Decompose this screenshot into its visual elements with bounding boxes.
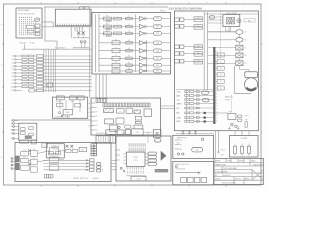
crystal X1 <box>80 7 84 10</box>
gate U2 <box>47 83 52 87</box>
svg-text:C8: C8 <box>245 40 247 42</box>
filter bank <box>148 152 157 165</box>
svg-text:4: 4 <box>133 2 134 4</box>
svg-text:OUT: OUT <box>156 65 159 67</box>
keyboard block KB1 <box>16 8 42 38</box>
input row 3 <box>12 62 92 65</box>
border zone ticks <box>1 2 263 186</box>
main amplifier IC20 <box>213 47 217 124</box>
audio panel <box>15 143 111 182</box>
wire stubs to option box <box>183 133 196 135</box>
driver row 1 <box>99 16 171 22</box>
controller IC901 <box>120 152 148 174</box>
svg-text:P5: P5 <box>95 125 97 127</box>
sheet border frame <box>4 4 262 185</box>
bus line <box>95 14 97 72</box>
svg-text:B1: B1 <box>220 61 222 63</box>
input row 4 <box>12 65 92 68</box>
svg-text:REC: REC <box>177 121 182 123</box>
power cluster <box>228 112 249 130</box>
bus drop <box>96 74 106 98</box>
corridor wires <box>161 106 175 109</box>
svg-text:KEY BOARD: KEY BOARD <box>18 9 30 12</box>
svg-text:L2: L2 <box>245 47 247 49</box>
input row 2 <box>12 58 92 61</box>
svg-text:~: ~ <box>33 153 34 155</box>
svg-text:37: 37 <box>248 155 250 157</box>
control bottom box <box>131 176 146 181</box>
bus line <box>98 14 100 72</box>
wire <box>248 70 250 72</box>
svg-text:R3: R3 <box>128 48 130 50</box>
key legend 2 <box>28 30 34 33</box>
svg-text:OUT: OUT <box>156 58 159 60</box>
input row 6 <box>12 72 92 75</box>
svg-text:OUT: OUT <box>156 42 159 44</box>
input row 1 <box>12 55 92 58</box>
svg-text:Q22: Q22 <box>33 158 36 160</box>
svg-text:KB-201: KB-201 <box>20 43 28 45</box>
audio out rows <box>44 159 95 172</box>
parts cluster <box>116 118 131 129</box>
svg-text:Q5: Q5 <box>115 47 117 49</box>
svg-text:P4: P4 <box>95 121 97 123</box>
svg-text:B3: B3 <box>220 75 222 77</box>
power supply block PS1 <box>53 96 88 119</box>
dashed line <box>230 95 232 112</box>
svg-text:31: 31 <box>234 155 236 157</box>
part column <box>134 116 143 129</box>
input filters <box>194 17 203 64</box>
hatched block F2 <box>134 110 140 114</box>
shield dashed line <box>220 11 222 58</box>
svg-text:B2: B2 <box>220 68 222 70</box>
svg-text:P6: P6 <box>95 130 97 132</box>
wire <box>143 131 153 133</box>
svg-text:CTRL: CTRL <box>134 160 138 162</box>
panel top rail <box>204 13 258 15</box>
svg-text:T1: T1 <box>245 32 247 34</box>
svg-text:TAPE: TAPE <box>177 102 183 105</box>
svg-text:7: 7 <box>244 2 245 4</box>
svg-text:R10: R10 <box>106 16 109 18</box>
svg-text:X2: X2 <box>44 145 46 147</box>
svg-text:IC13: IC13 <box>23 157 26 159</box>
svg-text:2: 2 <box>59 2 60 4</box>
interface panel <box>91 98 161 135</box>
bus line mid2 <box>146 40 148 72</box>
ic IC6 <box>110 125 118 131</box>
svg-text:C2: C2 <box>128 24 130 26</box>
capacitors C2 C3 <box>80 41 86 48</box>
input row 5 <box>12 68 92 71</box>
audio filters <box>96 162 104 172</box>
output filter chain <box>208 26 247 65</box>
svg-text:-B: -B <box>89 103 91 105</box>
wire stub <box>44 7 46 41</box>
svg-text:R3: R3 <box>128 40 130 42</box>
preamp IC25 <box>46 144 64 158</box>
svg-text:D-401: D-401 <box>136 179 140 181</box>
buffer box <box>79 147 86 151</box>
svg-text:D-10: D-10 <box>11 86 14 88</box>
bus verticals <box>44 49 56 92</box>
panel pin stubs <box>91 103 97 132</box>
svg-text:D-6: D-6 <box>12 73 15 75</box>
svg-text:AUDIO SECTION: AUDIO SECTION <box>74 177 89 180</box>
cap C9 <box>126 108 133 113</box>
bus line mid <box>135 15 137 73</box>
wire <box>45 40 57 42</box>
capacitor C1 <box>85 7 89 10</box>
inter-panel wires <box>111 160 116 170</box>
panel top parts <box>19 140 36 144</box>
svg-text:OUT: OUT <box>156 18 159 20</box>
svg-text:B4: B4 <box>220 81 222 83</box>
panel bus <box>204 12 207 90</box>
keyboard ref label <box>20 42 36 44</box>
svg-text:~: ~ <box>53 167 54 169</box>
driver T1 <box>161 151 167 161</box>
dip switch SW9 <box>44 175 53 178</box>
power wires to title area <box>216 131 226 159</box>
svg-text:A-3520: A-3520 <box>93 177 99 180</box>
title block <box>214 159 263 185</box>
svg-text:P2: P2 <box>95 112 97 114</box>
svg-text:TUN: TUN <box>177 91 182 93</box>
svg-text:B0: B0 <box>220 55 222 57</box>
svg-text:R3: R3 <box>128 63 130 65</box>
wire <box>147 132 149 143</box>
sensor box S1 <box>153 130 161 138</box>
key switch matrix <box>19 17 36 35</box>
pill X3 <box>209 16 214 19</box>
svg-text:Q5: Q5 <box>115 39 117 41</box>
svg-text:LINE: LINE <box>177 117 182 119</box>
driver row 5 <box>99 47 171 53</box>
wire stub <box>24 45 26 50</box>
ic IC7 <box>106 130 116 135</box>
svg-text:Q21: Q21 <box>33 149 36 151</box>
io strip J9 <box>96 136 116 143</box>
svg-text:T-301: T-301 <box>70 101 74 103</box>
svg-text:IC901: IC901 <box>133 157 138 159</box>
svg-text:6: 6 <box>207 2 208 4</box>
svg-text:Q5: Q5 <box>115 68 117 70</box>
svg-text:D-5: D-5 <box>12 69 15 71</box>
svg-text:P1: P1 <box>95 107 97 109</box>
transformer wires <box>208 17 231 31</box>
svg-text:IC12: IC12 <box>23 150 26 152</box>
svg-text:PH-01: PH-01 <box>160 11 167 13</box>
svg-text:C2: C2 <box>128 16 130 18</box>
svg-text:L: L <box>102 166 103 168</box>
svg-text:5: 5 <box>170 2 171 4</box>
svg-text:JUN-26 BLOCK DIAGRAM: JUN-26 BLOCK DIAGRAM <box>168 6 202 10</box>
input row 10 <box>11 86 92 89</box>
svg-text:34: 34 <box>241 155 243 157</box>
svg-text:OUT: OUT <box>156 71 159 73</box>
key legend 1 <box>27 25 35 28</box>
mic connector CN5 <box>11 120 19 141</box>
wire rail <box>73 47 89 49</box>
driver row 7 <box>99 62 171 68</box>
svg-text:C-9159: C-9159 <box>240 138 247 140</box>
svg-text:(RL): (RL) <box>248 20 252 22</box>
relay K1 <box>144 109 152 116</box>
wire <box>208 39 231 41</box>
driver row 6 <box>99 55 171 61</box>
mic amp block A1 <box>19 123 37 140</box>
board connectors <box>182 131 197 133</box>
svg-text:3: 3 <box>96 2 97 4</box>
svg-text:10K: 10K <box>197 18 199 20</box>
CPU block IC1 <box>55 9 91 26</box>
transistors Q1 Q2 <box>77 31 85 38</box>
svg-text:S1 S2 S3 S4 S5 S6: S1 S2 S3 S4 S5 S6 <box>18 14 35 16</box>
svg-text:R10: R10 <box>106 31 109 33</box>
wire drops <box>71 26 82 38</box>
wire <box>208 30 237 32</box>
volume note text <box>225 96 233 102</box>
svg-text:D-9: D-9 <box>12 83 15 85</box>
wire mic bus <box>15 119 92 121</box>
transistors Q25 Q26 <box>66 145 78 153</box>
svg-text:P-101: P-101 <box>30 42 36 44</box>
wire <box>234 66 251 94</box>
top blocks <box>117 129 143 136</box>
driver row 8 <box>99 68 171 74</box>
label strip <box>155 169 168 172</box>
annotation note <box>244 19 255 23</box>
panel caption <box>96 133 126 135</box>
svg-text:D-1: D-1 <box>12 56 15 58</box>
option box 1 <box>173 135 214 158</box>
svg-text:10K: 10K <box>197 60 199 62</box>
svg-text:D-3: D-3 <box>12 62 15 64</box>
svg-text:(+B: (+B <box>88 125 91 127</box>
wire <box>239 69 249 71</box>
IC pin labels <box>129 143 146 152</box>
option box 2 <box>173 162 214 185</box>
svg-text:~: ~ <box>24 160 25 162</box>
wire <box>176 132 214 134</box>
ic IC4 <box>117 109 125 114</box>
shield blocks <box>16 156 20 170</box>
pill X2 <box>155 139 161 142</box>
audio jacks CN6 <box>10 158 15 171</box>
hatched block F1 <box>104 109 114 113</box>
svg-text:MAIN VOL: MAIN VOL <box>225 96 233 99</box>
svg-text:(SP L: (SP L <box>245 120 249 122</box>
svg-text:R3: R3 <box>128 56 130 58</box>
output transformer block <box>223 12 241 27</box>
svg-text:OUT: OUT <box>156 50 159 52</box>
svg-text:D-4: D-4 <box>12 66 15 68</box>
svg-text:JUN-26: JUN-26 <box>215 178 221 180</box>
driver panel <box>92 13 171 75</box>
svg-text:D-7: D-7 <box>12 76 15 78</box>
svg-text:REMOTE PCB: REMOTE PCB <box>177 138 187 140</box>
wire rail <box>73 37 89 39</box>
wire <box>215 112 228 114</box>
svg-text:~: ~ <box>24 153 25 155</box>
input row 7 <box>12 75 92 78</box>
input terminals <box>175 18 194 63</box>
wire keypad to CPU <box>43 21 54 23</box>
control panel stubs <box>116 150 146 176</box>
main right panel <box>174 11 258 131</box>
driver row 2 <box>99 24 171 30</box>
control panel <box>116 136 171 181</box>
svg-text:OSC: OSC <box>135 132 140 134</box>
resistor pack RA1 <box>35 24 40 35</box>
svg-text:PW-01: PW-01 <box>221 150 226 152</box>
svg-text:P.CONTROL: P.CONTROL <box>55 48 66 50</box>
wire <box>56 41 58 49</box>
audio stages <box>21 143 66 172</box>
svg-text:10K: 10K <box>197 46 199 48</box>
wire <box>238 66 240 70</box>
svg-text:D-2: D-2 <box>12 59 15 61</box>
svg-text:R10: R10 <box>106 24 109 26</box>
net arrow labels <box>88 103 92 127</box>
wire <box>52 22 54 27</box>
driver row 4 <box>99 39 171 45</box>
svg-text:SCH 1/1: SCH 1/1 <box>235 178 241 180</box>
svg-text:~: ~ <box>24 167 25 169</box>
svg-text:PROT: PROT <box>229 112 233 114</box>
buffer B2 <box>110 135 116 144</box>
corridor line <box>89 10 91 98</box>
svg-text:~: ~ <box>33 161 34 163</box>
speaker SP1 <box>245 72 258 91</box>
wire header <box>22 48 92 50</box>
svg-text:D-8: D-8 <box>12 79 15 81</box>
svg-text:OUT: OUT <box>156 26 159 28</box>
input row 8 <box>12 79 92 82</box>
wire row <box>43 26 91 28</box>
driver row 3 <box>99 31 171 37</box>
svg-text:P0: P0 <box>95 103 97 105</box>
svg-text:D5: D5 <box>245 63 247 65</box>
svg-text:NOTE C-200 FLOW: NOTE C-200 FLOW <box>175 164 189 166</box>
header connectors J2 J3 <box>96 99 150 107</box>
svg-text:Q5: Q5 <box>115 62 117 64</box>
svg-text:BUF: BUF <box>81 149 84 151</box>
svg-text:B5: B5 <box>220 88 222 90</box>
svg-text:C2: C2 <box>128 31 130 33</box>
connector grid J8 <box>91 144 97 156</box>
wire top bus <box>44 6 168 8</box>
svg-text:921-0017-00: 921-0017-00 <box>222 175 231 177</box>
speaker box C9159 <box>230 131 259 157</box>
selector rows <box>176 89 214 123</box>
ic IC5 <box>105 119 114 124</box>
svg-text:P3: P3 <box>95 116 97 118</box>
svg-text:OUT: OUT <box>156 33 159 35</box>
svg-text:10K: 10K <box>197 52 199 54</box>
svg-text:Q5: Q5 <box>115 55 117 57</box>
svg-text:10K: 10K <box>197 25 199 27</box>
svg-text:D-11: D-11 <box>11 90 14 92</box>
svg-text:F3: F3 <box>245 55 247 57</box>
input row 11 <box>11 89 92 92</box>
svg-text:1: 1 <box>22 2 23 4</box>
svg-text:DWG NO C-9159-01: DWG NO C-9159-01 <box>222 183 236 185</box>
audio panel captions <box>74 177 99 180</box>
bias network column <box>215 53 224 90</box>
svg-text:R3: R3 <box>128 68 130 70</box>
input row 9 <box>12 82 92 85</box>
LED D1 <box>35 18 40 21</box>
